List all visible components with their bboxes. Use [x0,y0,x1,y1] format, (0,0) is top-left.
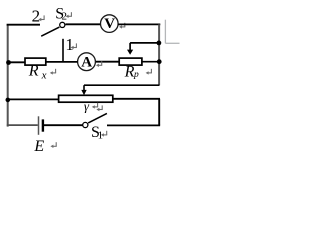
wire: ammeter to Rp [95,61,119,63]
wire: voltmeter to top-right corner [118,23,160,25]
switch S2 blade [41,27,59,36]
paragraph mark after Rx [50,69,56,75]
resistor Rp box [119,58,142,65]
svg-text:2: 2 [32,6,40,25]
paragraph mark above S1 blade [96,105,102,111]
paragraph mark after ammeter [96,61,102,67]
wire: bottom left to battery (grey) [7,124,38,126]
svg-text:p: p [133,70,139,80]
wire: battery to S1 [44,124,83,126]
node junction dot left middle [6,60,11,65]
paragraph mark after Rp [146,69,152,75]
paragraph mark after E [50,142,56,148]
wire: Rx to ammeter [46,61,78,63]
Rp wiper arrow [127,43,133,55]
svg-text:A: A [81,54,92,70]
svg-text:1: 1 [65,35,74,54]
rheostat r box [59,95,113,102]
node junction dot top right [157,41,162,46]
node junction dot right of Rp [157,59,162,64]
switch S1 blade [88,113,107,123]
wire: bottom right horizontal to S1 [107,124,160,126]
wire: left vertical rail [7,25,9,127]
resistor Rx box [25,58,46,65]
wire: right vertical rail upper (grey) [158,24,160,85]
svg-text:V: V [104,16,115,32]
battery E short plate (negative) [42,119,44,131]
voltmeter V circle U=V [101,15,119,33]
paragraph mark after gamma [92,103,98,109]
wire: stub terminal one [62,39,64,62]
svg-text:E: E [33,138,44,155]
node junction dot left lower [6,98,11,103]
wire: left rail to Rx [7,61,25,63]
wire: left rail to rheostat [7,98,59,100]
svg-text:γ: γ [84,98,90,113]
wire: Rp right terminal to rail [142,61,159,63]
rheostat wiper arrow [81,85,86,95]
paragraph mark after 2 [38,15,44,21]
svg-text:R: R [124,63,135,80]
paragraph mark after S2 [66,12,72,18]
svg-text:x: x [41,70,47,82]
wire: rheostat right terminal [113,98,160,100]
battery E long plate (positive, grey) [38,116,40,135]
paragraph mark after 1 [71,43,77,49]
wire: branch to Rp wiper [130,42,159,44]
svg-text:R: R [28,63,39,80]
switch S2 pivot circle [60,22,65,27]
switch S1 pivot circle [83,122,88,127]
ammeter A circle [78,53,96,71]
light grey artifact L corner top right [165,20,179,44]
paragraph mark after S1 [101,131,107,137]
wire: right vertical rail lower [158,99,160,126]
wire: wiper branch to right rail [84,84,159,86]
wire: S2 to voltmeter [66,23,101,25]
paragraph mark after voltmeter [119,23,125,29]
wire: top-left horizontal to switch S2 [7,24,40,26]
